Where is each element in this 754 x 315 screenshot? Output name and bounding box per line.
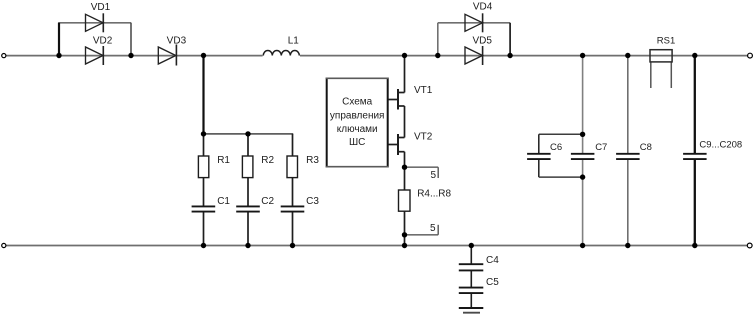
svg-text:C7: C7 (595, 142, 607, 153)
svg-text:ключами: ключами (337, 124, 378, 135)
svg-text:VT1: VT1 (414, 85, 433, 96)
svg-text:RS1: RS1 (657, 35, 675, 46)
svg-text:C9...C208: C9...C208 (699, 140, 742, 151)
svg-text:VD2: VD2 (93, 36, 113, 47)
svg-text:R2: R2 (261, 155, 274, 166)
svg-text:ШС: ШС (349, 137, 365, 148)
svg-text:C3: C3 (306, 196, 319, 207)
svg-text:C1: C1 (217, 196, 230, 207)
svg-text:R1: R1 (217, 155, 230, 166)
svg-text:VD4: VD4 (473, 2, 493, 13)
svg-text:VT2: VT2 (414, 132, 433, 143)
svg-text:5: 5 (431, 170, 437, 181)
svg-text:R3: R3 (306, 155, 319, 166)
svg-text:VD5: VD5 (472, 35, 492, 46)
svg-text:C8: C8 (640, 142, 652, 153)
svg-text:C6: C6 (550, 142, 562, 153)
svg-text:C2: C2 (261, 196, 274, 207)
svg-text:C5: C5 (486, 277, 499, 288)
svg-text:VD1: VD1 (91, 2, 111, 13)
svg-text:C4: C4 (486, 255, 499, 266)
svg-text:Схема: Схема (342, 97, 373, 108)
svg-text:VD3: VD3 (167, 36, 187, 47)
svg-text:5: 5 (430, 223, 436, 234)
svg-text:L1: L1 (288, 36, 300, 47)
svg-text:R4...R8: R4...R8 (417, 189, 451, 200)
svg-text:управления: управления (330, 110, 385, 121)
